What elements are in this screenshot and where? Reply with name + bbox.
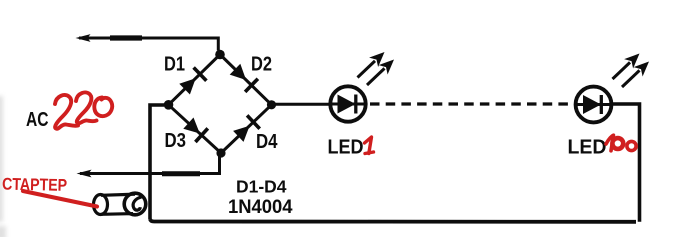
starter (fluorescent-lamp starter cylinder)	[94, 193, 146, 215]
annotation: red 1 after LED	[365, 137, 374, 154]
node: bridge top junction	[215, 50, 225, 60]
diode D1	[169, 55, 221, 105]
LED1 light arrows	[358, 52, 395, 85]
svg-text:D3: D3	[165, 129, 187, 152]
annotation: red 100 after LED	[606, 135, 636, 151]
LED LED100	[576, 87, 612, 123]
svg-text:D2: D2	[251, 53, 272, 76]
node: bridge right junction	[267, 100, 276, 109]
svg-text:LED: LED	[568, 136, 607, 159]
wire: LED100 right side down to rail	[613, 104, 640, 222]
svg-text:D1: D1	[164, 53, 185, 76]
LED100 light arrows	[613, 54, 650, 88]
LED LED1	[330, 86, 366, 121]
diode D3	[169, 105, 222, 153]
annotation: red 220 (mains voltage)	[55, 92, 112, 128]
svg-text:AC: AC	[26, 108, 49, 131]
node: bridge left junction	[164, 100, 174, 110]
wire: bottom AC lead (to mains, left arrow)	[77, 156, 220, 177]
annotation: red pointer line to starter	[23, 191, 97, 207]
wire: top AC lead (to mains, left arrow)	[76, 34, 219, 50]
diode D2	[220, 55, 272, 105]
wire: bridge right node to LED1	[275, 103, 330, 106]
node: bridge bottom junction	[216, 148, 225, 157]
diode D4	[221, 105, 272, 153]
svg-text:D4: D4	[256, 130, 278, 153]
svg-text:LED: LED	[328, 136, 364, 159]
svg-text:D1-D4: D1-D4	[236, 177, 287, 197]
wire: dashed link LED1 to LED100	[370, 102, 573, 105]
wire: bridge left node down to starter junction	[150, 105, 164, 219]
svg-text:1N4004: 1N4004	[228, 196, 293, 218]
wire: bottom return rail	[150, 219, 636, 222]
